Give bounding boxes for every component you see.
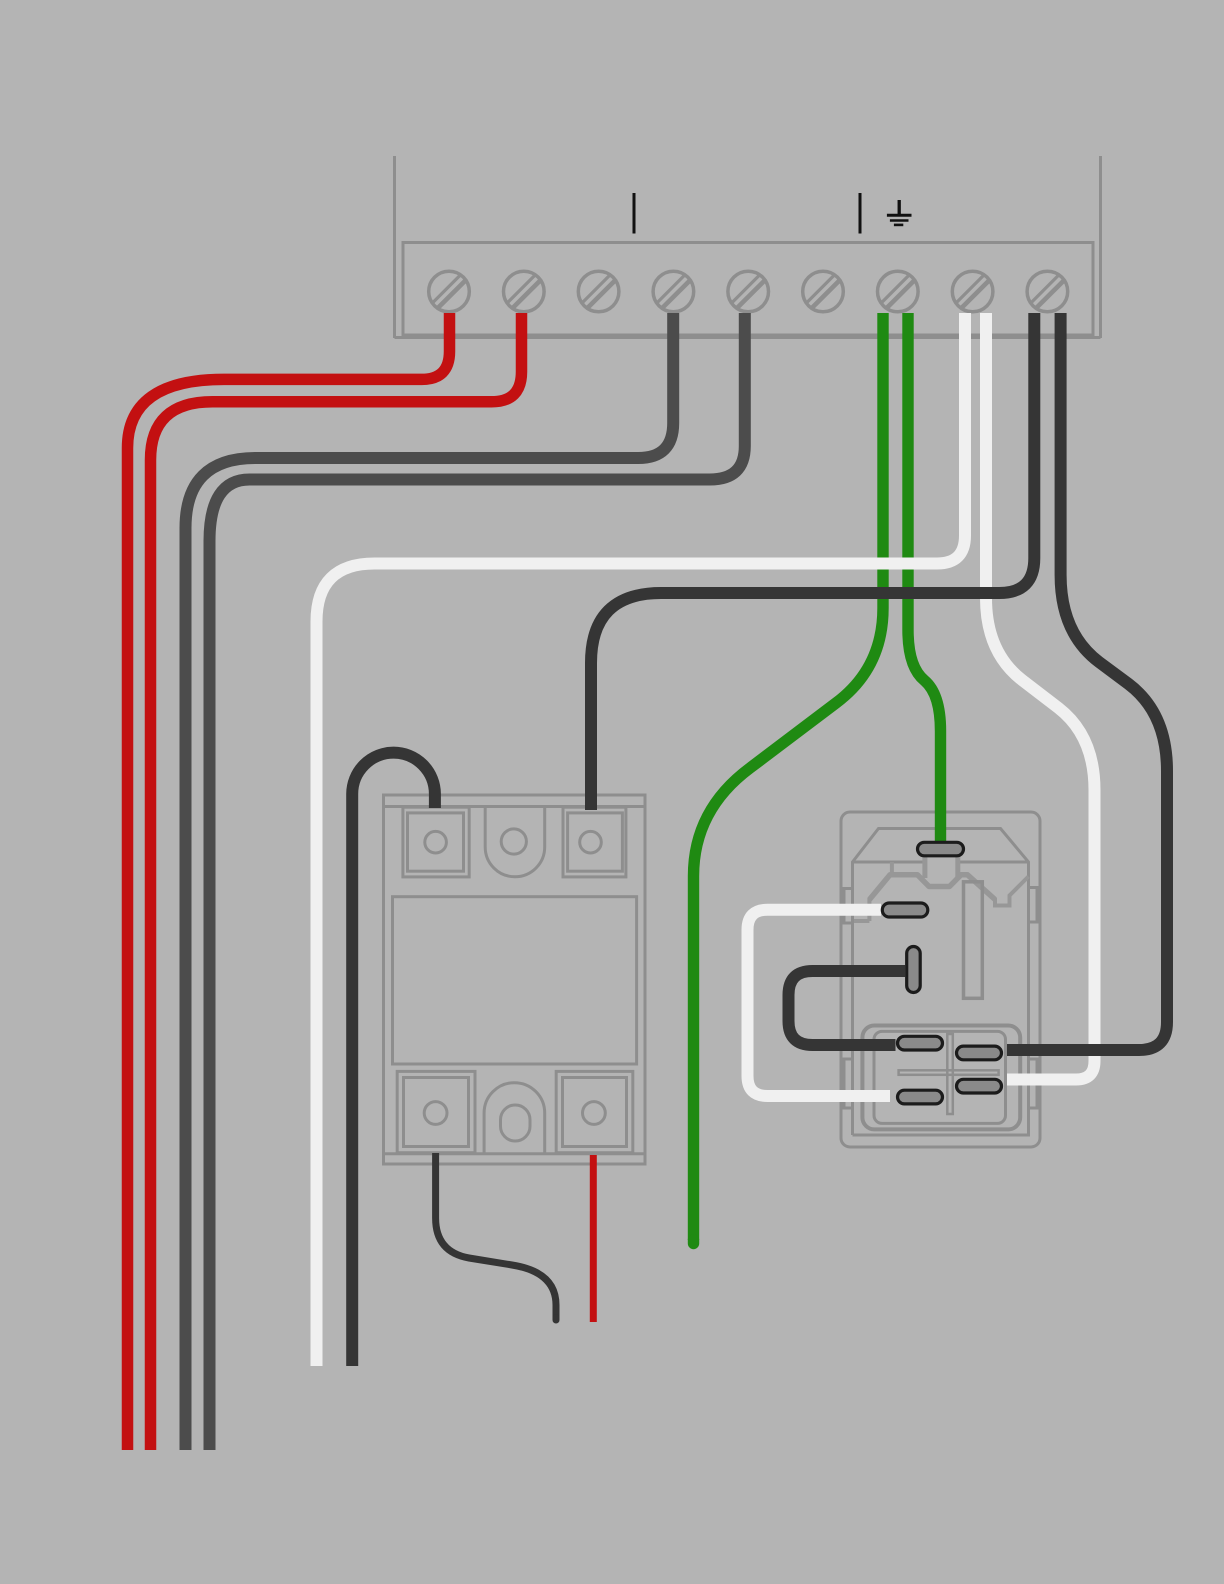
screw terminal 6 [803,271,844,312]
wire white H [986,313,1095,1080]
line tick N [859,193,862,234]
wire dark G [591,313,1034,810]
SSR top band [384,805,646,808]
SSR terminal 4 box [556,1071,633,1152]
screw terminal 5 [728,271,769,312]
wire dark K [789,971,906,1045]
fuse divider vertical [947,1034,953,1114]
left side tab lower [844,1059,853,1108]
right side tab upper [1029,888,1038,923]
SSR bottom mounting slot [501,1105,531,1141]
wire green 2 [908,313,941,846]
module body [841,812,1040,1147]
fuse holder F1 [862,1026,1020,1130]
wire green 1 tip [688,1240,699,1244]
ground symbol [887,200,912,225]
earth pin shaft [925,856,958,878]
SSR top mounting hole [501,829,526,854]
pin live [907,947,921,993]
power entry module J1 [841,812,1040,1147]
wire gray C [186,313,674,1450]
terminal strip body [403,243,1093,336]
left contact pocket [853,862,892,921]
wire dark F [352,753,435,1366]
fuse pin upper-left [898,1036,943,1050]
live contact slot [964,882,983,999]
inlet shelf line [853,861,1029,864]
wire green 1 [694,313,884,1240]
wire control red M [590,1155,597,1322]
wire control dark L tip [553,1318,560,1320]
right contact pocket [995,877,1029,906]
screw terminal 9 [1027,271,1068,312]
screw terminal 1 [429,271,470,312]
SSR terminal 3 box [397,1071,475,1152]
line tick L [633,193,636,234]
SSR top notch [485,807,545,877]
SSR bottom band [384,1152,646,1155]
SSR label plate [393,897,637,1064]
SSR terminal A2 box [563,807,626,877]
wire white E [317,313,966,1366]
wire white J [748,910,891,1096]
screw terminal 2 [504,271,545,312]
screws placeholder [429,271,1068,312]
pin neutral [882,903,928,917]
SSR body [384,795,646,1164]
wire red B [151,313,522,1450]
screw terminal 3 [578,271,619,312]
panel left wall [393,156,396,338]
panel right wall [1099,156,1102,338]
fuse divider horizontal [899,1070,999,1075]
terminal block TB1 [395,156,1101,338]
screw terminal 7 [878,271,919,312]
wire red A [128,313,450,1450]
inlet face outline [853,829,1029,1136]
panel bottom edge [395,336,1101,339]
screw terminal 4 [653,271,694,312]
fuse pin lower-right [957,1079,1002,1093]
contact wings [870,875,996,900]
wire gray D [210,313,745,1450]
SSR terminal A1 box [403,807,469,877]
SSR bottom arch [484,1083,545,1154]
wire dark I [1007,313,1167,1050]
fuse pin upper-right [957,1046,1002,1060]
right side tab lower [1029,1059,1038,1108]
fuse pin lower-left [898,1090,943,1104]
pin earth [918,842,964,856]
solid state relay SSR1 [384,795,646,1164]
screw terminal 8 [952,271,993,312]
wire control dark L [436,1153,556,1318]
left side tab upper [844,889,853,924]
